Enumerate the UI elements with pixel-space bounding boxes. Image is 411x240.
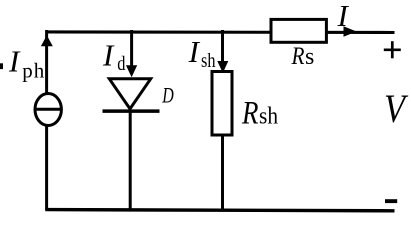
svg-text:I: I [337, 0, 350, 33]
svg-text:R: R [291, 43, 305, 70]
arrow Id down [126, 65, 137, 77]
current source U:Iph chord [35, 108, 62, 111]
svg-text:s: s [305, 44, 314, 70]
wire left branch vertical [45, 30, 48, 210]
svg-text:sh: sh [259, 103, 278, 129]
svg-text:ph: ph [22, 59, 45, 83]
wire diode branch lower [129, 111, 132, 210]
terminal minus [385, 199, 397, 203]
svg-text:I: I [102, 38, 115, 73]
wire shunt branch lower [221, 136, 224, 210]
svg-text:I: I [8, 44, 21, 79]
arrow I output [344, 26, 357, 37]
left edge mark [0, 63, 3, 69]
svg-text:R: R [241, 95, 258, 131]
current source U:Iph circle [35, 94, 61, 126]
wire top bus [47, 30, 395, 34]
svg-text:I: I [188, 34, 201, 69]
diode D triangle [109, 79, 150, 109]
resistor Rs box [271, 19, 326, 42]
svg-text:sh: sh [201, 50, 216, 72]
wire shunt branch upper [221, 30, 224, 68]
resistor Rsh box [212, 72, 232, 136]
svg-text:d: d [117, 53, 125, 75]
svg-text:V: V [384, 86, 409, 131]
arrow Ish down [217, 61, 228, 73]
svg-text:D: D [162, 83, 174, 108]
terminal + [384, 48, 401, 51]
wire bottom bus [45, 210, 394, 211]
current source U:Iph arrow up [41, 35, 53, 46]
wire diode branch upper [130, 30, 133, 74]
diode D cathode bar [103, 109, 160, 113]
